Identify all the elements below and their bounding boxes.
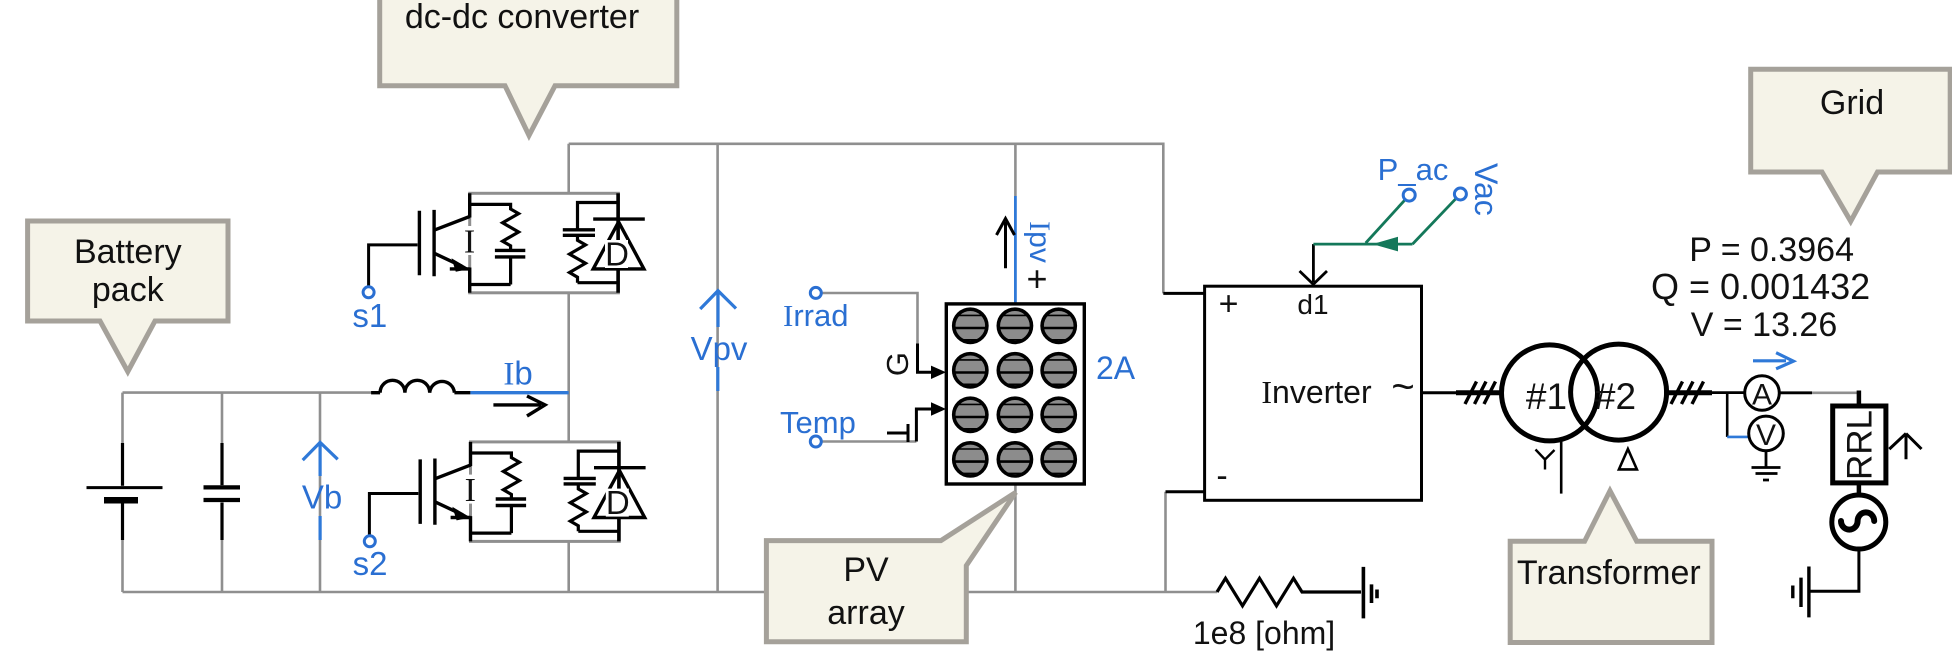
voltmeter arrow Vpv [691,291,748,391]
ground at source (left pointing) [1793,567,1809,618]
transformer T1 winding #1 [1502,345,1598,441]
wire: source to ground [1811,549,1859,591]
snubber capacitor (diode) [578,203,619,230]
svg-text:+: + [1026,258,1047,299]
wire: battery top rail [123,391,372,394]
PV cells row 3 [954,398,1076,431]
wire: Ipv blue segment [1014,196,1017,304]
wire: V meter tap [1726,393,1729,437]
arrow: green arrowhead [1373,237,1399,252]
diode triangle [593,222,644,269]
transformer T1 winding #2 [1571,344,1667,440]
svg-text:pack: pack [92,271,165,309]
callout: Grid [1751,69,1951,221]
snubber resistor (IGBT) [470,204,519,250]
ground at resistor (right pointing) [1363,567,1377,619]
terminal s2 [364,536,375,547]
svg-text:Ipv: Ipv [1023,221,1056,263]
terminal Irrad [810,287,821,298]
label D [605,240,628,268]
svg-text:Vac: Vac [1468,163,1504,216]
svg-text:V: V [1756,419,1776,452]
PV array input T [887,402,946,442]
callout: Transformer [1510,491,1712,643]
inverter U1 [1163,285,1421,500]
fixed load RRL [1833,391,1886,483]
PV cells row 4 [954,443,1076,476]
wire: PV array bottom vertical [1014,484,1017,592]
wire: Temp wire [821,440,916,443]
wire: converter leg vertical [567,144,570,592]
inductor L1 [371,380,470,392]
snubber capacitor (IGBT) [495,250,525,257]
IGBT gate bars [419,210,434,276]
snubber resistor (diode) [570,236,619,283]
svg-text:s2: s2 [353,545,388,582]
PV array input G [880,344,946,380]
svg-text:A: A [1752,379,1772,412]
svg-text:PV: PV [843,551,889,589]
svg-text:dc-dc converter: dc-dc converter [405,0,639,36]
terminal Temp [810,436,821,447]
terminal s1 [363,287,374,298]
wire: Ib blue wire [470,391,568,394]
wire: PV array top vertical (gray part) [1014,144,1017,196]
svg-text:~: ~ [1391,365,1414,409]
svg-text:#2: #2 [1595,376,1636,417]
svg-text:s1: s1 [352,297,387,334]
svg-text:P = 0.3964: P = 0.3964 [1689,231,1854,269]
module box [470,193,619,292]
wire: dc plus stub [1163,292,1204,295]
diode cathode rail [616,193,620,292]
wire: dc minus stub [1166,490,1205,493]
terminal Vac [1454,188,1466,200]
svg-text:2A: 2A [1096,350,1136,386]
wire: Vpv vertical [716,144,719,592]
svg-text:I: I [464,224,475,261]
svg-text:V = 13.26: V = 13.26 [1691,306,1838,344]
svg-text:Battery: Battery [74,233,182,271]
wire: grid side gray segment [1812,391,1857,394]
svg-text:G: G [880,352,915,376]
svg-text:+: + [1219,285,1239,323]
IGBT collector [434,193,470,230]
wire: transformer neutral [1560,441,1563,494]
ammeter A [1745,376,1780,411]
arrow d1 input [1300,244,1328,284]
wire: bottom rail [123,591,1218,594]
IGBT module s2 (IGBT + snubber + diode D) [369,442,645,542]
label I [459,226,480,255]
snubber return wire [470,257,511,285]
gate lead wire [369,245,418,287]
PV array panel [946,304,1084,484]
ground below voltmeter [1752,451,1781,480]
wire: Irrad wire [821,293,918,344]
hash marks left of transformer [1456,390,1501,395]
wire: dc bus top rail [569,144,1164,294]
svg-text:RRL: RRL [1841,410,1880,480]
svg-text:Inverter: Inverter [1261,374,1372,410]
IGBT module s1 (IGBT I + snubber + diode D) [369,193,645,292]
delta winding symbol [1619,449,1637,469]
svg-text:Grid: Grid [1820,84,1884,122]
svg-text:D: D [605,236,629,273]
svg-text:P_ac: P_ac [1378,152,1449,187]
svg-text:Temp: Temp [780,405,856,440]
arrow: power flow blue [1753,353,1793,369]
callout: dc-dc converter [380,0,677,135]
svg-text:1e8 [ohm]: 1e8 [ohm] [1193,615,1335,651]
arrow: load adjust [1889,434,1921,460]
svg-text:Transformer: Transformer [1517,554,1701,592]
PV cells row 2 [954,354,1076,387]
ammeter arrow Ipv [997,219,1015,269]
svg-text:Vpv: Vpv [691,330,748,367]
svg-text:d1: d1 [1297,289,1328,320]
callout: Battery pack [28,221,228,372]
svg-text:Irrad: Irrad [783,298,848,333]
ac source S1 [1832,483,1886,549]
wire: inverter ac output [1422,391,1502,394]
svg-text:-: - [1216,457,1227,495]
IGBT emitter [434,253,470,293]
svg-text:array: array [827,594,904,632]
wire: green measurement P_ac [1313,198,1456,244]
callout: PV array [766,492,1015,642]
wire: battery left vertical [121,393,124,592]
IGBT emitter arrowhead [452,258,470,272]
Y winding symbol [1536,450,1555,470]
svg-text:Vb: Vb [302,479,342,516]
PV cells row [954,309,1076,342]
svg-text:Ib: Ib [503,355,532,393]
arrow: Ib direction [493,396,545,416]
terminal P_ac [1403,189,1415,201]
wire: capacitor vertical [221,393,224,592]
wire: Vb measurement vertical [319,393,322,592]
hash marks right of transformer [1664,390,1712,395]
voltmeter arrow Vb [302,442,342,540]
voltmeter V [1749,416,1784,451]
svg-text:Q = 0.001432: Q = 0.001432 [1651,266,1870,307]
svg-text:#1: #1 [1526,376,1567,417]
inverter box [1205,286,1422,500]
battery B1 [87,443,163,540]
wire: transformer to meters [1667,391,1812,394]
wire: inverter minus leg [1164,492,1167,592]
resistor R1 1e8 [1217,578,1361,606]
capacitor C1 [204,443,241,540]
